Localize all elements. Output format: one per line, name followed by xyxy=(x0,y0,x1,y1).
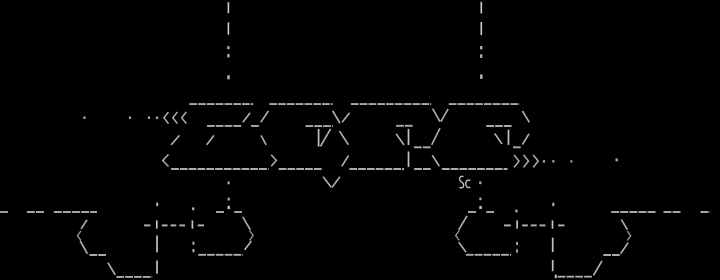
node: right trail colon xyxy=(480,46,482,49)
cloud top V notch xyxy=(433,109,449,122)
cloud second tier (row B) xyxy=(207,111,268,126)
cross 2 vertical xyxy=(552,220,554,228)
signature letter S xyxy=(459,176,463,188)
crossbar dashes xyxy=(504,224,564,226)
right swirl backslash xyxy=(495,134,502,145)
roof underscores xyxy=(216,211,224,213)
tail colon dots xyxy=(516,242,518,245)
left speed chevrons <<< xyxy=(164,112,186,124)
cloud center slash xyxy=(321,129,331,146)
node: right trail dot above car 2 xyxy=(479,206,482,209)
ledge underscores xyxy=(603,254,620,256)
wire segment: left trail bar 1 xyxy=(227,2,229,13)
crash cloud top outline (row A underscores) xyxy=(189,103,519,105)
lower backslash xyxy=(459,242,466,252)
right swirl top underscores xyxy=(486,125,512,127)
nose chevron xyxy=(456,231,460,241)
ledge underscores xyxy=(90,254,107,256)
left swirl vertical bar xyxy=(408,129,410,167)
pole vertical bars xyxy=(552,238,554,253)
nose chevron xyxy=(250,231,254,241)
cross 1 vertical xyxy=(516,220,518,228)
bottom underscores xyxy=(116,276,152,278)
left pole with crosses xyxy=(144,203,204,274)
node: top right dot xyxy=(515,210,517,213)
left swirl top underscores xyxy=(396,125,413,127)
cloud center tier underscores xyxy=(306,125,334,127)
left swirl mid underscores xyxy=(414,146,431,148)
tail colon dots xyxy=(193,242,195,245)
node: left trail dot low xyxy=(228,182,230,185)
right speed chevrons >>> xyxy=(514,155,538,168)
wire segment: left trail bar 2 xyxy=(227,22,229,34)
right swirl mid underscore xyxy=(513,146,521,148)
cloud bottom V dip xyxy=(323,177,340,188)
cloud center V notch xyxy=(333,111,350,123)
right speed-line dots xyxy=(543,159,618,163)
cloud inner right chevron xyxy=(271,155,276,167)
right bumper car xyxy=(456,210,518,255)
cross 1 vertical xyxy=(156,220,158,228)
chevron notch xyxy=(77,231,81,241)
ground line left xyxy=(0,211,97,213)
lower slash xyxy=(245,241,252,250)
cloud center fold xyxy=(340,131,349,166)
node: left trail dot above car 1 xyxy=(228,198,230,201)
cloud inner slashes (row C) xyxy=(171,135,266,145)
slash xyxy=(81,220,87,229)
left swirl tall slash xyxy=(432,128,440,145)
lower backslash xyxy=(108,263,115,275)
wire segment: right trail bar 1 xyxy=(480,2,482,14)
left wall bracket xyxy=(77,220,152,277)
lower slash xyxy=(594,261,603,276)
node: left trail dot xyxy=(227,75,229,79)
backslash xyxy=(80,241,87,254)
node: dot above cross xyxy=(552,203,554,206)
right swirl vertical bar xyxy=(508,130,510,145)
node: dot at pole base xyxy=(555,275,557,278)
signature letter c xyxy=(466,180,471,188)
slash xyxy=(243,113,250,122)
left speed-line dots xyxy=(83,116,158,119)
slash xyxy=(261,111,269,122)
node: dot above cross 2 xyxy=(192,207,194,210)
pole vertical bars xyxy=(156,236,158,253)
right wall bracket xyxy=(558,220,631,277)
node: left trail colon xyxy=(227,46,229,49)
floor underscores xyxy=(198,254,243,256)
node: right trail dot above car 1 xyxy=(479,198,481,201)
wire segment: right trail bar 2 xyxy=(480,22,482,35)
floor underscores xyxy=(466,254,511,256)
right pole with crosses xyxy=(504,203,564,278)
left bumper car xyxy=(193,212,254,255)
node: left trail dot above car 2 xyxy=(228,206,231,209)
node: right trail dot xyxy=(480,75,482,79)
roof slash xyxy=(459,216,467,230)
roof underscores xyxy=(468,211,476,213)
cloud left point chevron xyxy=(163,154,169,166)
chevron notch xyxy=(627,231,630,240)
node: right trail dot low xyxy=(479,181,481,184)
left swirl backslash xyxy=(396,134,404,145)
left swirl backslash low xyxy=(432,155,439,166)
cloud bottom line (row D underscores) xyxy=(171,168,507,170)
slash xyxy=(621,243,629,254)
backslash xyxy=(621,220,627,230)
cloud center vertical bar xyxy=(318,129,320,147)
right edge slash xyxy=(522,134,529,145)
crossbar dashes xyxy=(144,224,204,226)
bottom underscores xyxy=(558,276,593,278)
cross 2 vertical xyxy=(191,220,193,228)
ground line right xyxy=(611,211,710,213)
right edge backslash from top xyxy=(522,111,529,123)
left ceiling pole trail xyxy=(227,2,230,209)
right ceiling pole trail xyxy=(479,2,482,209)
node: dot above cross 1 xyxy=(156,203,158,206)
roof backslash xyxy=(243,217,251,230)
